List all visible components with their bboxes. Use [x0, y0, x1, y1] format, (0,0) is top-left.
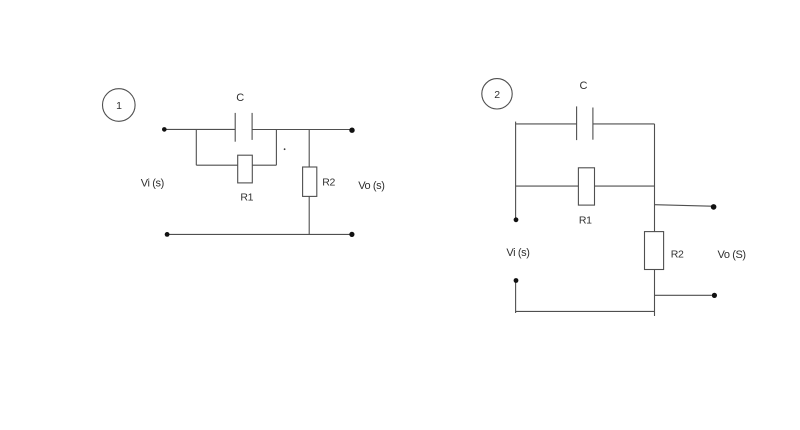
node dot bottom-right output terminal (circuit 1)	[349, 232, 354, 237]
svg-text:1: 1	[116, 100, 122, 112]
wire top rail left segment (circuit 1)	[164, 128, 235, 130]
svg-text:Vi (s): Vi (s)	[506, 247, 529, 259]
resistor R2 body (circuit 1)	[303, 167, 317, 196]
svg-text:R1: R1	[240, 192, 253, 204]
wire parallel-branch right vertical (circuit 1)	[275, 129, 277, 165]
wire lower-left input lead (circuit 2)	[515, 281, 517, 314]
wire top rail right segment (circuit 1)	[252, 129, 352, 131]
resistor R1 body (circuit 1)	[238, 155, 253, 183]
svg-text:2: 2	[494, 89, 500, 101]
node dot lower output terminal (circuit 2)	[712, 293, 717, 298]
node dot bottom-left input terminal (circuit 1)	[165, 232, 170, 237]
circuit 1 badge circle	[103, 89, 136, 122]
svg-text:R2: R2	[322, 176, 335, 188]
svg-text:R2: R2	[671, 249, 684, 261]
wire parallel-branch left vertical (circuit 1)	[195, 129, 197, 165]
capacitor C left plate (circuit 2)	[576, 106, 578, 140]
wire upper output branch (circuit 2)	[655, 205, 712, 207]
svg-text:Vi (s): Vi (s)	[141, 177, 164, 189]
resistor R1 body (circuit 2)	[578, 168, 594, 205]
wire right vertical upper segment (circuit 2)	[654, 124, 656, 232]
wire right vertical lower segment (circuit 2)	[654, 270, 656, 317]
wire top rail right segment (circuit 2)	[593, 123, 655, 125]
wire middle rail right lead from R1 (circuit 2)	[595, 185, 655, 187]
wire parallel-branch horizontal right lead from R1 (circuit 1)	[252, 164, 276, 166]
wire lower output branch (circuit 2)	[655, 294, 712, 296]
node dot upper output terminal (circuit 2)	[711, 204, 717, 210]
wire R2 bottom lead (circuit 1)	[308, 196, 310, 234]
wire bottom rail (circuit 1)	[167, 233, 352, 235]
capacitor C right plate (circuit 1)	[251, 113, 253, 140]
node dot top-left input terminal (circuit 1)	[162, 127, 167, 132]
capacitor C left plate (circuit 1)	[234, 113, 236, 142]
svg-text:C: C	[580, 80, 588, 92]
stray dot mark (circuit 1)	[284, 148, 286, 150]
wire middle rail left lead to R1 (circuit 2)	[516, 185, 579, 187]
svg-text:Vo (s): Vo (s)	[358, 180, 384, 192]
wire R2 top lead (circuit 1)	[308, 130, 310, 168]
resistor R2 body (circuit 2)	[645, 232, 664, 270]
wire left vertical input lead (circuit 2)	[515, 122, 517, 220]
node dot top-right output terminal (circuit 1)	[349, 128, 354, 133]
wire bottom rail (circuit 2)	[516, 310, 655, 312]
node dot lower input terminal (circuit 2)	[514, 278, 519, 283]
svg-text:Vo (S): Vo (S)	[718, 249, 746, 261]
node dot upper input terminal (circuit 2)	[514, 217, 519, 222]
svg-text:R1: R1	[579, 214, 592, 226]
wire top rail left segment (circuit 2)	[516, 123, 577, 125]
capacitor C right plate (circuit 2)	[592, 108, 594, 140]
circuit 2 badge circle	[482, 79, 512, 109]
svg-text:C: C	[236, 92, 244, 104]
wire parallel-branch horizontal left lead to R1 (circuit 1)	[196, 164, 237, 166]
